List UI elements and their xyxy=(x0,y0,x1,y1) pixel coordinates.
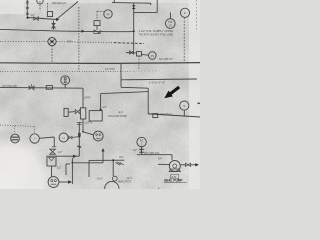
wire: pump suction line xyxy=(101,88,149,114)
instrument bubble (34.5,138.5) xyxy=(30,134,39,143)
valve on vertical drop x53.5 xyxy=(52,21,56,30)
black annotation arrow xyxy=(164,86,180,99)
drop line x72.4 lower xyxy=(66,148,105,184)
mixer bubble on dotted line (52,41.5) xyxy=(48,38,56,46)
svg-text:C+O: C+O xyxy=(97,177,102,181)
signal dashed vertical x184 xyxy=(183,18,185,63)
wire: drop to FI bubble xyxy=(82,119,93,135)
svg-text:PW: PW xyxy=(168,20,173,24)
instrument bubble FI (185,14) xyxy=(180,8,189,17)
pump bubble (53.5,182) xyxy=(48,177,59,188)
svg-text:TI: TI xyxy=(39,0,42,4)
wire: y156 link with arrow xyxy=(56,155,79,158)
label E-4 SEAL POT xyxy=(118,176,133,184)
svg-text:TIE INTO EXIST. P.W. LINE: TIE INTO EXIST. P.W. LINE xyxy=(139,32,174,36)
discharge valve + arrow xyxy=(180,163,199,166)
svg-text:3/4"R: 3/4"R xyxy=(84,96,91,100)
reducer link to PW bubble xyxy=(169,12,171,18)
branch line y80 to right xyxy=(121,63,197,80)
small valve circle above seal pot xyxy=(112,176,117,181)
lower utility header y87.6 xyxy=(0,86,83,89)
seal pot circle (bottom, clipped) xyxy=(105,181,119,195)
svg-text:PW-010-07: PW-010-07 xyxy=(52,1,67,5)
svg-text:E-3: E-3 xyxy=(119,110,124,114)
dotted utility line y71.5 xyxy=(0,70,158,73)
instrument bubble FI (98,136) xyxy=(93,131,103,141)
svg-text:PS: PS xyxy=(151,54,155,58)
svg-text:1/2": 1/2" xyxy=(58,150,63,154)
svg-text:L.: L. xyxy=(158,186,161,189)
signal dash x78.7 down xyxy=(78,7,80,71)
wire: drop at x83 xyxy=(82,88,84,108)
tick right edge xyxy=(198,102,201,105)
label SEAL PUMP xyxy=(164,179,183,183)
bubble PS (141.5,141.3) xyxy=(137,137,146,146)
signal dashes from TI bubble xyxy=(39,5,41,10)
junction on H2 xyxy=(133,30,135,32)
light corners xyxy=(0,0,1,1)
valve on y87.6 line xyxy=(29,84,34,90)
instrument bubble PW (170,24) xyxy=(166,19,176,29)
valve on top-left header xyxy=(34,17,39,21)
svg-text:3/4"-05-2": 3/4"-05-2" xyxy=(160,112,172,116)
wire: sub header y12.4 xyxy=(134,0,157,12)
svg-text:1/2": 1/2" xyxy=(57,166,62,170)
svg-text:3/4": 3/4" xyxy=(119,155,124,159)
svg-text:3/4": 3/4" xyxy=(102,105,107,109)
wire: seal pot header y160.5 xyxy=(89,159,125,177)
inline fitting on y115 header xyxy=(153,114,158,118)
dotted line y41.5 xyxy=(0,42,144,44)
wire: upper main header H2 xyxy=(0,29,134,31)
svg-text:?: ? xyxy=(34,137,36,141)
svg-text:3/4": 3/4" xyxy=(31,13,36,17)
control valve body (top-left) xyxy=(47,3,52,17)
svg-text:1/2"x3/8"-07: 1/2"x3/8"-07 xyxy=(159,57,174,61)
drain ticks xyxy=(116,162,125,165)
svg-text:PW: PW xyxy=(68,39,73,43)
wire: header line top-left xyxy=(27,18,57,20)
seal bubble (184,105.5) xyxy=(180,101,189,116)
signal line to PI bubble xyxy=(97,11,104,20)
note text top right xyxy=(139,29,174,37)
dashed edge line right xyxy=(196,0,198,30)
valve+gauge assembly near x131 xyxy=(126,51,148,70)
svg-text:SEAL POT: SEAL POT xyxy=(118,180,132,184)
instrument bubble (63.5,137.5) xyxy=(59,133,68,142)
svg-text:H: H xyxy=(63,136,65,140)
knockout pot vessel xyxy=(47,156,56,166)
tee fitting below bubble xyxy=(139,146,144,154)
svg-text:3/4": 3/4" xyxy=(158,156,163,160)
wire: top line y2.5 xyxy=(112,0,151,5)
svg-text:VACUUM PUMP: VACUUM PUMP xyxy=(108,114,128,118)
instrument bubble PI (top middle) xyxy=(104,10,112,18)
svg-text:SEAL PUMP: SEAL PUMP xyxy=(164,179,183,183)
wire: pot to pump circle xyxy=(51,166,53,176)
seal pump A-5 xyxy=(158,161,180,172)
paper background xyxy=(0,0,200,189)
wire: discharge with arrow xyxy=(59,180,72,184)
signal dash x52 down xyxy=(51,46,53,63)
label A-5 xyxy=(170,175,178,179)
svg-text:1/2"-PW: 1/2"-PW xyxy=(105,67,115,71)
svg-text:1'-0"x1'-0"-07: 1'-0"x1'-0"-07 xyxy=(149,81,165,85)
valve above knockout pot xyxy=(50,147,57,154)
wire: bottom-right header y115 xyxy=(148,114,200,117)
instrument bubble (65,80) xyxy=(61,76,70,88)
dotted signal line bottom-left xyxy=(0,125,35,134)
flow arrow on H2 xyxy=(82,30,85,33)
svg-text:F: F xyxy=(184,11,186,15)
wire from bubble to drop xyxy=(39,137,54,147)
wire: WD line to seal pump xyxy=(137,155,172,160)
svg-text:1/2": 1/2" xyxy=(133,148,138,152)
vacuum pump E-3 xyxy=(89,109,102,122)
svg-text:PI: PI xyxy=(107,12,110,16)
filter assembly xyxy=(64,108,86,119)
flow arrow on header xyxy=(56,18,59,21)
label E-3 VACUUM PUMP xyxy=(108,110,128,118)
wire: diagonal riser xyxy=(57,1,79,19)
insulated line with X marks (top-left) xyxy=(26,0,29,18)
svg-text:S: S xyxy=(183,104,185,108)
inline strainer box xyxy=(46,86,52,90)
svg-text:3/4"-WD-151: 3/4"-WD-151 xyxy=(144,151,160,155)
svg-text:3/4"-PW-105: 3/4"-PW-105 xyxy=(2,84,17,88)
gauge bubble (152,55.5) xyxy=(149,52,157,60)
control valve assembly (x97) xyxy=(94,21,100,34)
wire: main long header H3 xyxy=(0,62,200,65)
branch y87.3 xyxy=(121,86,148,89)
stub valve right of bubble xyxy=(69,136,72,139)
inline valve (filled) on vertical x133.7 xyxy=(132,3,136,50)
gauge vertical line x79.5 xyxy=(77,122,82,156)
instrument bubble TI (top, clipped) xyxy=(37,0,43,4)
instrument bubble FE (15,138.5) xyxy=(11,134,20,143)
